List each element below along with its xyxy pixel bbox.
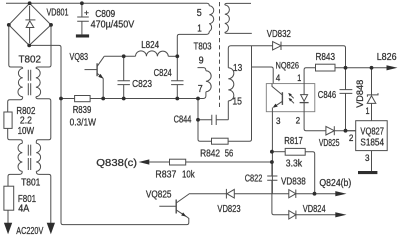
svg-text:AC220V: AC220V	[16, 226, 43, 237]
svg-text:3: 3	[365, 153, 370, 163]
svg-text:4A: 4A	[18, 204, 29, 215]
svg-text:T802: T802	[19, 55, 42, 66]
svg-text:VD823: VD823	[217, 204, 240, 215]
svg-text:VD838: VD838	[281, 177, 306, 188]
svg-text:3: 3	[276, 116, 281, 126]
svg-text:10k: 10k	[182, 170, 195, 181]
svg-text:3.3k: 3.3k	[286, 158, 303, 169]
svg-text:R842: R842	[200, 149, 220, 160]
svg-text:R839: R839	[73, 105, 92, 116]
svg-text:Q838(c): Q838(c)	[96, 158, 137, 169]
svg-text:R817: R817	[284, 136, 303, 147]
svg-text:C823: C823	[132, 79, 152, 90]
svg-text:2: 2	[349, 133, 354, 143]
svg-text:13: 13	[233, 63, 242, 74]
svg-text:Q824(b): Q824(b)	[319, 178, 351, 189]
svg-text:C846: C846	[318, 90, 336, 101]
svg-text:VD848: VD848	[355, 80, 365, 108]
svg-text:0.3/1W: 0.3/1W	[70, 117, 97, 128]
svg-text:L824: L824	[141, 40, 159, 51]
svg-text:7: 7	[198, 84, 203, 95]
svg-text:S1854: S1854	[360, 138, 384, 149]
svg-text:1: 1	[366, 106, 370, 116]
svg-text:4: 4	[276, 73, 281, 83]
svg-text:T803: T803	[194, 42, 212, 53]
svg-text:L826: L826	[377, 52, 397, 63]
svg-text:T801: T801	[21, 178, 41, 189]
svg-text:C844: C844	[174, 114, 192, 125]
svg-text:R843: R843	[316, 52, 336, 63]
svg-text:15: 15	[232, 96, 242, 107]
svg-text:1: 1	[197, 24, 202, 35]
svg-text:5: 5	[197, 8, 202, 19]
svg-text:VQ83: VQ83	[70, 52, 89, 63]
svg-text:R837: R837	[155, 170, 176, 181]
svg-text:C809: C809	[95, 9, 115, 20]
svg-text:VD825: VD825	[319, 138, 340, 149]
svg-text:VD832: VD832	[267, 29, 291, 40]
svg-text:C822: C822	[245, 173, 263, 184]
svg-text:VD824: VD824	[303, 204, 326, 215]
svg-text:10W: 10W	[18, 126, 35, 137]
svg-text:VD801: VD801	[47, 8, 69, 19]
svg-text:56: 56	[225, 149, 234, 160]
svg-text:9: 9	[199, 56, 204, 67]
svg-text:2.2: 2.2	[20, 115, 32, 126]
svg-text:1: 1	[297, 73, 301, 83]
svg-text:NQ826: NQ826	[276, 61, 300, 71]
svg-text:VQ827: VQ827	[360, 127, 384, 138]
svg-text:C824: C824	[154, 68, 172, 79]
svg-text:VQ825: VQ825	[146, 190, 172, 201]
svg-text:2: 2	[296, 116, 301, 126]
svg-text:470µ/450V: 470µ/450V	[91, 20, 135, 31]
